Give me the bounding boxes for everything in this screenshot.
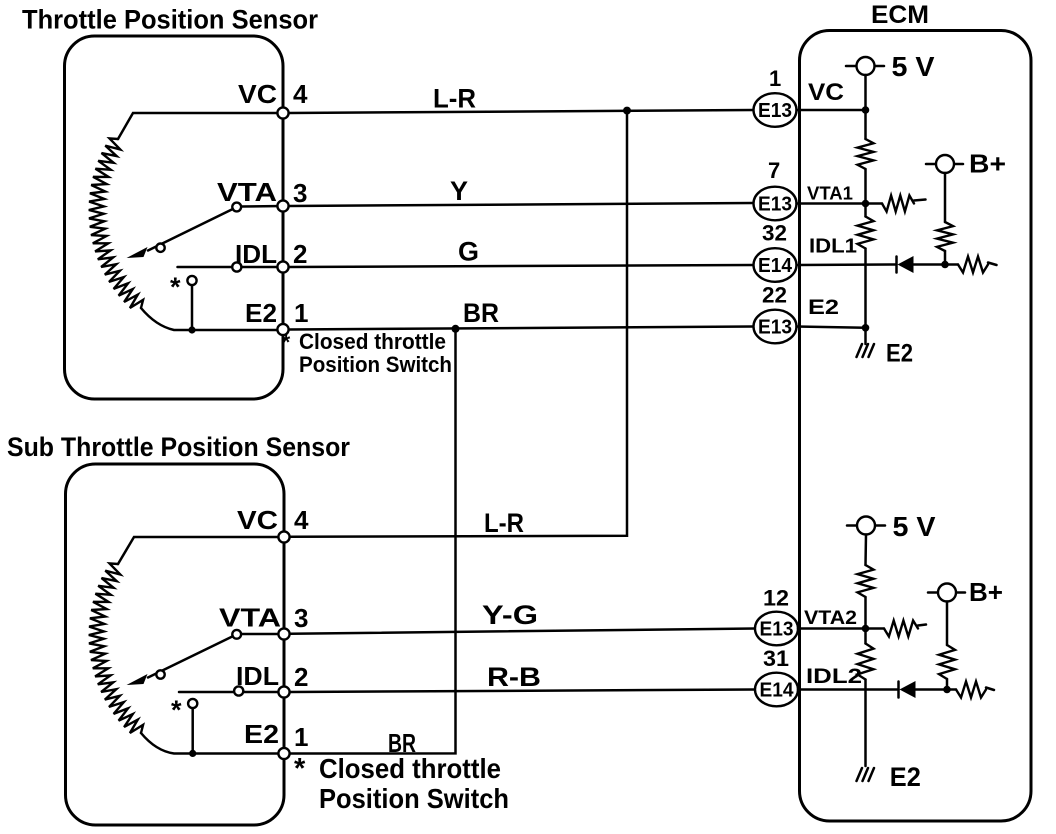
wiper arm TPS1 — [127, 203, 284, 258]
wire pullup to IDL2 node — [946, 679, 949, 690]
ECM internal wire VC — [797, 109, 866, 112]
svg-text:Y-G: Y-G — [482, 600, 538, 630]
svg-text:Y: Y — [450, 176, 468, 206]
junction node on BR wire — [452, 325, 460, 333]
resistor tail stub IDL2 — [986, 688, 994, 691]
resistor IDL1 load — [958, 257, 988, 273]
svg-text:L-R: L-R — [433, 84, 476, 114]
connector E13 pin7 — [754, 158, 797, 220]
svg-text:VC: VC — [238, 79, 277, 109]
svg-text:*: * — [294, 753, 306, 785]
svg-text:E13: E13 — [760, 619, 794, 641]
terminal IDL pin2 TPS2 — [278, 686, 289, 697]
ECM internal wire IDL2 — [798, 688, 899, 691]
junction node on L-R wire — [623, 107, 631, 115]
svg-text:E13: E13 — [758, 100, 792, 122]
svg-text:G: G — [458, 237, 479, 267]
svg-text:1: 1 — [294, 298, 308, 328]
B+ supply symbol (top) — [926, 149, 1006, 179]
svg-text:E13: E13 — [758, 194, 792, 216]
connector E14 pin31 — [755, 646, 798, 706]
svg-text:E14: E14 — [760, 680, 795, 702]
wire R2 to E2 node — [864, 249, 867, 345]
resistor tail stub IDL1 — [988, 263, 997, 266]
svg-text:Position Switch: Position Switch — [299, 352, 452, 377]
ECM internal wire E2 — [797, 327, 866, 328]
potentiometer TPS1 track lead (VC) — [118, 113, 283, 139]
resistor R3 (5V to VTA2) — [858, 565, 874, 597]
svg-text:Sub Throttle Position Sensor: Sub Throttle Position Sensor — [7, 432, 350, 462]
potentiometer TPS2 track lead (E2) — [141, 733, 284, 754]
svg-text:E13: E13 — [758, 317, 792, 339]
wire R-B (IDL2 to ECM pin31) — [290, 690, 755, 693]
svg-text:E2: E2 — [886, 340, 913, 368]
svg-text:BR: BR — [463, 298, 499, 328]
5V supply symbol (bottom) — [847, 511, 936, 542]
B+ supply symbol (bottom) — [928, 577, 1003, 607]
wire Y-G (VTA2 to ECM pin12) — [290, 629, 755, 634]
vertical wire BR branch to sub sensor E2 — [290, 329, 456, 754]
terminal VC pin4 TPS1 — [277, 107, 288, 118]
svg-text:7: 7 — [768, 158, 780, 183]
svg-text:32: 32 — [762, 221, 787, 246]
svg-text:Closed throttle: Closed throttle — [319, 753, 501, 784]
diode D2 on IDL2 line — [899, 681, 948, 698]
potentiometer TPS2 track lead (VC) — [118, 537, 284, 564]
5V rail wire (bottom) — [864, 535, 867, 566]
svg-text:E2: E2 — [244, 719, 279, 749]
ground symbol E2 (top) — [857, 344, 875, 357]
terminal E2 pin1 TPS2 — [278, 748, 289, 759]
B+ rail wire (bottom) — [946, 602, 949, 646]
svg-text:VC: VC — [808, 79, 844, 106]
svg-text:VTA2: VTA2 — [804, 608, 857, 629]
wiper arm TPS2 — [127, 630, 285, 685]
svg-text:E2: E2 — [890, 762, 921, 792]
resistor to VTA1 comparator — [882, 196, 914, 212]
5V rail wire (top) — [864, 75, 867, 139]
wire IDL2 node to resistor — [947, 688, 956, 691]
svg-text:Closed throttle: Closed throttle — [299, 329, 446, 354]
ECM box — [800, 31, 1032, 822]
svg-text:4: 4 — [294, 505, 309, 535]
svg-text:5 V: 5 V — [893, 511, 936, 542]
sensor box TPS2 — [66, 464, 285, 825]
closed throttle switch contact TPS1 — [170, 272, 197, 334]
resistor IDL2 load — [956, 682, 986, 698]
svg-text:R-B: R-B — [487, 662, 541, 692]
wire R1 to VTA1 node — [864, 169, 867, 217]
wire L-R (VC to ECM pin1) — [289, 110, 754, 113]
svg-text:*: * — [170, 272, 181, 302]
IDL contact stub TPS2 — [179, 686, 284, 695]
5V supply symbol (top) — [846, 51, 935, 82]
svg-text:22: 22 — [762, 283, 787, 308]
svg-text:IDL1: IDL1 — [809, 236, 857, 258]
terminal E2 pin1 TPS1 — [277, 324, 288, 335]
potentiometer TPS1 resistive track — [89, 138, 143, 308]
ECM internal wire VTA2 — [798, 627, 884, 630]
svg-text:VC: VC — [237, 505, 278, 535]
wire G (IDL to ECM pin32) — [289, 265, 754, 267]
wire pullup to IDL1 node — [944, 251, 947, 265]
node VTA1 junction — [862, 200, 870, 208]
vertical wire L-R branch to sub sensor VC — [290, 111, 627, 537]
wire BR (E2 to ECM pin22) — [289, 327, 754, 330]
svg-text:1: 1 — [294, 722, 308, 752]
svg-text:ECM: ECM — [871, 1, 929, 29]
svg-text:31: 31 — [763, 646, 789, 671]
IDL contact stub TPS1 — [178, 262, 284, 271]
node E2 junction (top) — [862, 324, 870, 332]
ECM internal wire IDL1 — [797, 263, 897, 266]
svg-text:5 V: 5 V — [892, 51, 935, 82]
resistor tail stub VTA1 — [914, 200, 926, 201]
resistor B+ pullup (bottom) — [939, 645, 955, 679]
connector E13 pin1 — [754, 66, 797, 127]
svg-text:*: * — [171, 695, 182, 725]
resistor to VTA2 comparator — [884, 621, 918, 637]
terminal IDL pin2 TPS1 — [277, 261, 288, 272]
svg-text:Position Switch: Position Switch — [319, 783, 509, 814]
svg-text:12: 12 — [763, 586, 789, 611]
node IDL2/B+ junction — [943, 686, 951, 694]
potentiometer TPS2 resistive track — [89, 563, 143, 733]
resistor R1 (5V to VTA1) — [858, 139, 874, 169]
B+ rail wire (top) — [944, 173, 947, 222]
closed throttle switch contact TPS2 — [171, 695, 197, 757]
svg-text:VTA1: VTA1 — [807, 184, 853, 204]
svg-text:3: 3 — [293, 178, 307, 208]
ECM internal wire VTA1 — [797, 202, 883, 205]
connector E13 pin22 — [754, 283, 797, 344]
node VC/5V junction — [862, 106, 870, 114]
svg-text:IDL: IDL — [236, 661, 279, 691]
svg-text:IDL2: IDL2 — [806, 665, 862, 688]
svg-text:B+: B+ — [969, 577, 1003, 607]
connector E14 pin32 — [754, 221, 797, 282]
svg-text:E2: E2 — [245, 298, 277, 328]
resistor B+ pullup (top) — [937, 222, 953, 251]
terminal VTA pin3 TPS2 — [278, 628, 289, 639]
wire IDL1 node to resistor — [945, 263, 958, 266]
node IDL1/B+ junction — [941, 261, 949, 269]
svg-text:E2: E2 — [808, 296, 839, 319]
svg-text:L-R: L-R — [484, 508, 524, 538]
wire Y (VTA to ECM pin7) — [289, 203, 754, 206]
svg-text:Throttle Position Sensor: Throttle Position Sensor — [22, 5, 318, 35]
node VTA2 junction — [862, 625, 870, 633]
svg-text:*: * — [282, 331, 291, 354]
resistor tail stub VTA2 — [918, 625, 926, 626]
svg-text:2: 2 — [293, 239, 307, 269]
resistor R4 (VTA2 down) — [858, 644, 874, 680]
svg-text:E14: E14 — [758, 255, 793, 277]
svg-text:IDL: IDL — [235, 239, 277, 269]
svg-text:VTA: VTA — [217, 177, 277, 207]
resistor R2 (VTA1 to E2) — [858, 217, 874, 249]
svg-text:1: 1 — [769, 66, 781, 91]
terminal VTA pin3 TPS1 — [277, 200, 288, 211]
svg-text:2: 2 — [294, 662, 308, 692]
svg-text:VTA: VTA — [219, 603, 281, 633]
svg-text:3: 3 — [294, 603, 308, 633]
sensor box TPS1 — [65, 36, 284, 399]
wire R4 to ground — [864, 680, 867, 767]
terminal VC pin4 TPS2 — [278, 531, 289, 542]
connector E13 pin12 — [755, 586, 798, 646]
svg-text:4: 4 — [293, 79, 308, 109]
diode D1 on IDL1 line — [897, 256, 946, 273]
svg-text:B+: B+ — [969, 149, 1006, 179]
potentiometer TPS1 track lead (E2) — [141, 308, 283, 330]
wire R3 to VTA2 node — [864, 597, 867, 644]
ground symbol E2 (bottom) — [857, 768, 875, 781]
